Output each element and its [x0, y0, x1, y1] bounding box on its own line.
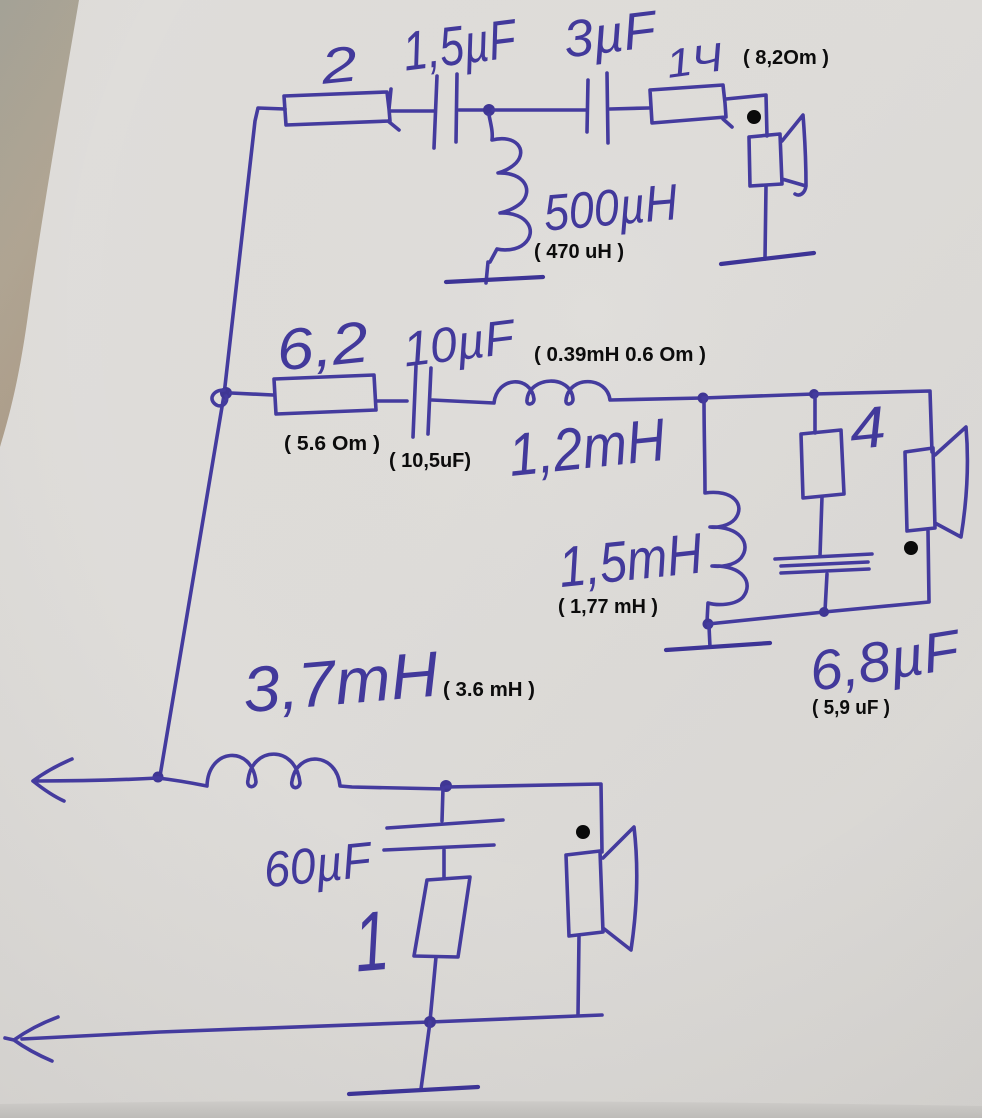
capacitor C "6,8uF" plates — [775, 554, 872, 573]
resistor R "1Ch" (tweeter) — [650, 85, 732, 127]
wire: C1.5-to-node-A — [459, 108, 487, 112]
wire: C6.8-to-bottom — [825, 574, 827, 611]
node H (60uF junction) — [440, 780, 452, 792]
wire: C60-to-R1 — [442, 850, 446, 878]
node A (junction dot) — [483, 104, 495, 116]
svg-text:1Ч: 1Ч — [664, 35, 726, 86]
svg-text:500µH: 500µH — [541, 173, 680, 241]
node C (mid shunt junction) — [698, 393, 709, 404]
wire: woofer bottom return — [22, 1015, 602, 1039]
node I (bottom junction) — [424, 1016, 436, 1028]
desk surface wedge top-left — [0, 0, 79, 447]
svg-text:( 10,5uF): ( 10,5uF) — [389, 450, 471, 472]
svg-text:6,2: 6,2 — [273, 309, 371, 383]
wire: node-E ground stub — [709, 626, 710, 647]
speaker SP2 midrange — [905, 427, 967, 537]
wire: R2-to-C1.5 — [390, 109, 434, 113]
node G (woofer input junction) — [153, 772, 164, 783]
resistor R "2" (tweeter series) — [284, 89, 399, 130]
svg-text:( 3.6 mH ): ( 3.6 mH ) — [443, 679, 535, 701]
svg-text:60µF: 60µF — [261, 831, 376, 898]
wire: node-B-to-R6.2 — [231, 393, 273, 395]
node: polarity dot (black) woofer — [576, 825, 590, 839]
node B (mid branch junction on bus) — [220, 387, 232, 399]
wire: R1-to-bottom-wire — [430, 957, 436, 1021]
wire: coil-to-ground stem — [486, 262, 488, 283]
arrow: input terminal bottom — [5, 1017, 58, 1061]
speaker SP3 woofer — [566, 827, 637, 950]
wire: speaker-M stem — [928, 531, 929, 601]
arrow: input terminal top — [33, 759, 158, 801]
resistor R "4" (mid shunt) — [801, 430, 844, 498]
inductor L "1,2mH" (mid series) — [432, 381, 703, 404]
inductor L "1,5mH" (mid shunt coil) — [704, 398, 747, 622]
svg-text:4: 4 — [846, 394, 889, 462]
svg-text:3µF: 3µF — [560, 0, 662, 69]
wire: node-H-to-C60 — [442, 788, 443, 821]
node B pen loop — [212, 390, 227, 406]
svg-text:( 470 uH ): ( 470 uH ) — [534, 241, 624, 263]
node E (mid bottom junction) — [703, 619, 714, 630]
wire: R6.2-to-C10 — [376, 399, 407, 403]
resistor R "1" (woofer shunt) — [414, 877, 470, 957]
wire: node-A-to-C3 — [493, 108, 586, 112]
node F (cap bottom junction) — [819, 607, 829, 617]
capacitor C "3uF" plates — [587, 73, 608, 143]
node: polarity dot (black) midrange — [904, 541, 918, 555]
node: polarity dot (black) tweeter — [747, 110, 761, 124]
ground bar (tweeter return) — [721, 253, 814, 264]
wire: mid bottom return — [708, 602, 929, 624]
inductor L "3,7mH" (woofer series) — [158, 754, 446, 789]
wire: node-C-to-node-D — [703, 394, 814, 398]
wire: bottom ground stem — [421, 1022, 430, 1089]
capacitor C "1,5uF" plates — [434, 74, 457, 148]
ground bar (mid return) — [666, 643, 770, 650]
ground bar (under 500uH) — [446, 277, 543, 282]
svg-text:( 5.6 Om ): ( 5.6 Om ) — [284, 433, 380, 455]
wire: input bus left vertical (top hook down to woofer junction) — [160, 108, 285, 776]
speaker SP1 tweeter — [749, 115, 806, 195]
resistor R "6,2" (mid series) — [274, 375, 376, 414]
wire: node-H-to-speaker-W — [446, 784, 602, 852]
capacitor C "10uF" plates — [413, 366, 431, 437]
wire: node-D-to-R4 — [813, 394, 817, 433]
svg-text:( 0.39mH 0.6 Om ): ( 0.39mH 0.6 Om ) — [534, 344, 706, 366]
paper bottom edge band — [0, 1101, 982, 1118]
wire: R4-to-C6.8 — [820, 497, 822, 556]
wire: speaker-W stem — [578, 936, 579, 1015]
wire: speaker-T stem — [765, 186, 766, 259]
svg-text:( 8,2Om ): ( 8,2Om ) — [743, 47, 829, 69]
ground bar (bottom) — [349, 1087, 478, 1094]
svg-text:( 1,77 mH ): ( 1,77 mH ) — [558, 596, 658, 618]
wire: node-D-to-right-corner — [814, 391, 932, 452]
inductor L "500uH" (shunt coil) — [489, 115, 530, 262]
capacitor C "60uF" plates — [384, 820, 503, 850]
wire: R1Ch-to-speaker-T — [726, 95, 767, 136]
node D (R4 top junction) — [809, 389, 819, 399]
svg-text:( 5,9 uF ): ( 5,9 uF ) — [812, 697, 890, 719]
svg-text:2: 2 — [317, 35, 360, 95]
wire: C3-to-R1Ch — [610, 108, 649, 109]
